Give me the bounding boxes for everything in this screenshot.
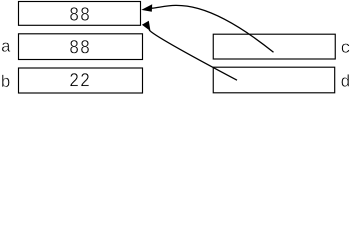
arrowhead into top box right edge (from c)	[141, 4, 152, 12]
wire curve from c to top box	[152, 5, 274, 52]
box a	[19, 34, 143, 60]
value 22 in box b	[70, 73, 89, 86]
label d	[341, 74, 349, 87]
value 88 in box a	[70, 40, 89, 53]
wire curve from d to top box corner	[149, 30, 237, 80]
value 88 in top box	[70, 7, 89, 20]
box object-88 (top)	[19, 2, 141, 26]
box b	[19, 68, 143, 93]
label a	[2, 42, 11, 51]
box c	[213, 34, 335, 59]
arrowhead into top box bottom-right corner (from d)	[142, 21, 151, 31]
box d	[213, 67, 334, 93]
label c	[342, 43, 350, 52]
label b	[2, 75, 10, 87]
